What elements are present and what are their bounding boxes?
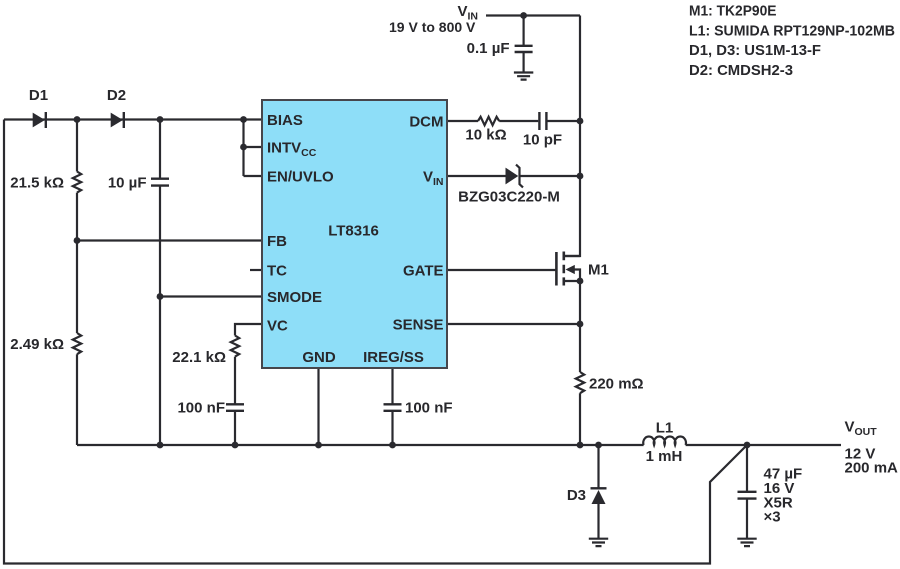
wire 220m to bus bbox=[579, 393, 581, 445]
diode D3 cathode bar bbox=[591, 487, 607, 489]
capacitor 100nF left plates bbox=[226, 404, 244, 411]
svg-text:×3: ×3 bbox=[764, 509, 781, 526]
junction bus / IREG pin bbox=[389, 442, 396, 449]
svg-text:EN/UVLO: EN/UVLO bbox=[267, 169, 334, 186]
junction D2 cathode / 10uF node bbox=[157, 116, 164, 123]
svg-text:VOUT: VOUT bbox=[845, 419, 878, 439]
junction FB divider node bbox=[74, 237, 81, 244]
wire M1 source to sense bbox=[579, 281, 581, 372]
svg-text:DCM: DCM bbox=[409, 114, 443, 131]
svg-text:200 mA: 200 mA bbox=[845, 460, 899, 477]
junction Vin rail / 0.1uF node bbox=[520, 12, 527, 19]
diode zener BZG03C220-M bar with hooks bbox=[516, 165, 523, 188]
resistor 10k zigzag bbox=[478, 117, 499, 125]
wire vertical x=77 (21.5k / 2.49k chain) bbox=[76, 120, 78, 446]
junction BIAS rail / EN link node bbox=[240, 116, 247, 123]
junction M1 source node bbox=[577, 278, 584, 285]
wire SMODE bbox=[160, 295, 262, 297]
wire GATE bbox=[447, 269, 556, 271]
svg-text:D2: D2 bbox=[107, 87, 126, 104]
wire vertical x=580 (HV rail to M1 drain) bbox=[564, 16, 580, 257]
wire FB bbox=[77, 239, 262, 241]
inductor L1 bumps bbox=[643, 437, 686, 445]
svg-text:D2: CMDSH2-3: D2: CMDSH2-3 bbox=[689, 62, 793, 79]
diode zener triangle bbox=[506, 168, 519, 185]
diode D1 cathode bar bbox=[45, 112, 47, 128]
resistor 21.5k zigzag bbox=[73, 172, 81, 193]
ground 47uF bbox=[737, 539, 756, 546]
wire vertical x=243.5 (BIAS-INTVcc-EN link) bbox=[242, 120, 244, 177]
diode D2 cathode bar bbox=[123, 112, 125, 128]
IC U1 LT8316 body bbox=[262, 100, 447, 368]
svg-text:VC: VC bbox=[267, 318, 288, 335]
wire SENSE bbox=[447, 323, 580, 325]
wire top rail y=119.5 to BIAS bbox=[4, 118, 262, 120]
capacitor 10uF plates bbox=[151, 179, 169, 186]
svg-text:L1: L1 bbox=[656, 420, 674, 437]
svg-text:1 mH: 1 mH bbox=[646, 448, 683, 465]
svg-text:BIAS: BIAS bbox=[267, 112, 303, 129]
wire 47uF branch bbox=[746, 445, 748, 538]
wire GND pin bbox=[317, 368, 319, 445]
svg-text:LT8316: LT8316 bbox=[328, 223, 379, 240]
svg-text:SENSE: SENSE bbox=[393, 317, 444, 334]
junction Vin pin / HV rail node bbox=[577, 173, 584, 180]
svg-text:SMODE: SMODE bbox=[267, 289, 322, 306]
resistor 220m zigzag bbox=[576, 372, 584, 393]
ground 0.1uF bbox=[514, 73, 533, 80]
junction D1 cathode / 21.5k node bbox=[74, 116, 81, 123]
svg-text:D1: D1 bbox=[29, 87, 48, 104]
svg-text:10 pF: 10 pF bbox=[523, 132, 562, 149]
svg-text:10 µF: 10 µF bbox=[108, 175, 147, 192]
diode D2 triangle bbox=[111, 113, 123, 128]
wire VIN pin bbox=[447, 175, 580, 177]
ground D3 bbox=[589, 539, 608, 546]
wire vertical x=160 (10uF / SMODE) bbox=[159, 120, 161, 446]
svg-text:GATE: GATE bbox=[403, 263, 444, 280]
svg-text:21.5 kΩ: 21.5 kΩ bbox=[10, 175, 64, 192]
svg-text:100 nF: 100 nF bbox=[177, 400, 225, 417]
wire IREG/SS pin bbox=[391, 368, 393, 445]
svg-text:D1, D3: US1M-13-F: D1, D3: US1M-13-F bbox=[689, 42, 821, 59]
capacitor 0.1uF bbox=[522, 16, 524, 73]
wire EN/UVLO stub bbox=[244, 175, 263, 177]
wire feedback loop (Vout node to bottom to left edge) bbox=[4, 120, 747, 564]
wire DCM bbox=[447, 120, 580, 122]
svg-text:M1: TK2P90E: M1: TK2P90E bbox=[689, 3, 777, 20]
diode D1 triangle bbox=[33, 113, 45, 128]
junction bus / GND pin bbox=[315, 442, 322, 449]
junction INTVcc stub node bbox=[240, 144, 247, 151]
junction bus / D3 branch bbox=[595, 442, 602, 449]
svg-text:220 mΩ: 220 mΩ bbox=[589, 376, 644, 393]
svg-text:GND: GND bbox=[302, 349, 336, 366]
capacitor 47uF plates bbox=[738, 492, 757, 499]
svg-text:TC: TC bbox=[267, 263, 287, 280]
svg-text:L1: SUMIDA RPT129NP-102MB: L1: SUMIDA RPT129NP-102MB bbox=[689, 22, 895, 39]
wire D3 branch bbox=[597, 445, 599, 538]
resistor 22.1k zigzag bbox=[231, 336, 239, 357]
node Vout / 47uF junction bbox=[744, 442, 751, 449]
svg-text:BZG03C220-M: BZG03C220-M bbox=[458, 189, 560, 206]
junction bus / VC branch bbox=[232, 442, 239, 449]
junction bus / SMODE branch bbox=[157, 442, 164, 449]
svg-text:10 kΩ: 10 kΩ bbox=[465, 127, 506, 144]
diode D3 triangle bbox=[592, 490, 606, 504]
svg-text:FB: FB bbox=[267, 233, 287, 250]
transistor M1 MOSFET bbox=[555, 252, 558, 286]
svg-text:19 V to 800 V: 19 V to 800 V bbox=[389, 19, 476, 35]
svg-text:22.1 kΩ: 22.1 kΩ bbox=[172, 349, 226, 366]
junction bus / 220m branch bbox=[577, 442, 584, 449]
svg-text:2.49 kΩ: 2.49 kΩ bbox=[10, 336, 64, 353]
wire top VIN rail bbox=[486, 14, 580, 16]
wire INTVcc stub bbox=[244, 146, 263, 148]
wire VC to divider bbox=[235, 324, 262, 445]
svg-text:D3: D3 bbox=[567, 487, 586, 504]
svg-text:M1: M1 bbox=[588, 262, 609, 279]
junction SENSE node bbox=[577, 321, 584, 328]
wire output bus bbox=[77, 444, 841, 446]
transistor M1 arrow bbox=[566, 265, 575, 274]
resistor 2.49k zigzag bbox=[73, 333, 81, 354]
capacitor 10pF plates bbox=[539, 112, 546, 130]
svg-text:0.1 µF: 0.1 µF bbox=[467, 40, 510, 57]
svg-text:IREG/SS: IREG/SS bbox=[363, 349, 424, 366]
svg-text:100 nF: 100 nF bbox=[405, 400, 453, 417]
junction SMODE / 10uF node bbox=[157, 293, 164, 300]
wire TC stub bbox=[250, 269, 262, 271]
capacitor 100nF right plates bbox=[384, 404, 402, 411]
junction DCM / HV rail node bbox=[577, 118, 584, 125]
